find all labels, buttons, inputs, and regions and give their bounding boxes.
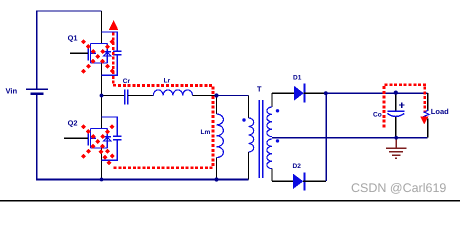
wire Vin bottom lead bbox=[36, 95, 38, 180]
transistor Q2 snubber capacitor branch bbox=[102, 117, 118, 160]
capacitor Co plus plate bbox=[388, 110, 405, 112]
wire secondary top lead bbox=[271, 93, 273, 107]
svg-text:Q1: Q1 bbox=[68, 33, 78, 42]
wire Lr to node bbox=[193, 95, 217, 97]
wire load top lead bbox=[427, 93, 429, 110]
Q2 X tail dots bbox=[98, 149, 103, 154]
wire node to transformer primary bbox=[217, 95, 249, 97]
svg-text:Co: Co bbox=[373, 111, 382, 118]
node Lm bottom junction dot bbox=[214, 177, 218, 181]
transformer secondary bottom polarity dot bbox=[276, 139, 279, 142]
capacitor Co top lead bbox=[395, 93, 397, 111]
capacitor Cr plates bbox=[124, 89, 126, 104]
wire Vin top lead bbox=[36, 10, 38, 88]
wire top rail Vin+ to Q1 drain bbox=[37, 10, 102, 12]
node Co ground junction dot bbox=[394, 136, 398, 140]
capacitor Co curved plate bbox=[387, 113, 404, 116]
svg-text:Lm: Lm bbox=[201, 129, 211, 136]
inductor Lm bbox=[217, 114, 224, 158]
svg-text:Lr: Lr bbox=[164, 78, 171, 85]
node Lm top junction dot bbox=[214, 93, 218, 97]
transformer T core bbox=[259, 100, 262, 178]
svg-text:D2: D2 bbox=[293, 163, 302, 170]
output current dotted path bbox=[384, 85, 426, 128]
wire secondary top to D1 bbox=[272, 92, 294, 94]
wire secondary bottom to D2 bbox=[272, 180, 293, 182]
resistor load zigzag bbox=[424, 110, 429, 118]
transistor Q1 gate lead bbox=[70, 52, 88, 54]
svg-text:T: T bbox=[257, 85, 262, 94]
wire load bottom lead bbox=[427, 118, 429, 137]
svg-text:D1: D1 bbox=[293, 75, 302, 82]
diode D1 bbox=[294, 86, 304, 101]
wire Cr to Lr bbox=[128, 95, 154, 97]
node D1 cathode junction dot bbox=[324, 91, 328, 95]
transformer T secondary bottom winding bbox=[267, 139, 272, 169]
wire Lm top stub bbox=[216, 96, 218, 115]
transistor Q1 snubber capacitor branch bbox=[102, 32, 118, 75]
transistor Q1 mosfet body bbox=[88, 44, 107, 64]
bottom border line bbox=[0, 200, 460, 202]
transistor Q2 body diode bbox=[106, 129, 108, 149]
wire D2 cathode riser bbox=[325, 93, 327, 181]
inductor Lr bbox=[153, 90, 192, 96]
svg-text:Cr: Cr bbox=[123, 78, 131, 85]
diode D2 bbox=[293, 174, 303, 190]
wire mid node to Cr bbox=[102, 95, 126, 97]
transformer T secondary top winding bbox=[267, 107, 272, 137]
wire transformer primary top lead bbox=[248, 96, 250, 119]
svg-text:Q2: Q2 bbox=[68, 118, 78, 127]
current path arrow up at Q1 bbox=[109, 20, 118, 30]
wire center tap return line bbox=[272, 137, 428, 139]
wire transformer primary bottom lead bbox=[248, 152, 250, 180]
wire half-bridge bus vertical bbox=[101, 11, 103, 180]
transistor Q2 mosfet body bbox=[88, 129, 107, 149]
wire bottom rail bbox=[36, 179, 249, 181]
ground symbol bbox=[395, 138, 397, 148]
node Co top junction dot bbox=[394, 91, 398, 95]
transformer secondary top polarity dot bbox=[276, 109, 279, 112]
svg-text:Load: Load bbox=[431, 107, 449, 116]
transformer T primary winding bbox=[249, 118, 254, 152]
node bus bottom junction dot bbox=[100, 178, 104, 182]
svg-text:CSDN @Carl619: CSDN @Carl619 bbox=[351, 181, 446, 195]
svg-text:Vin: Vin bbox=[6, 87, 18, 96]
capacitor Co plus sign bbox=[399, 102, 405, 108]
node mid bridge junction dot bbox=[100, 94, 104, 98]
Q1 off-cross dotted X bbox=[81, 39, 86, 44]
wire secondary bottom lead bbox=[271, 169, 273, 182]
Q2 off-cross dotted X bbox=[81, 124, 86, 129]
capacitor Co bottom lead bbox=[395, 117, 397, 138]
wire Lm bottom stub bbox=[216, 158, 218, 180]
transformer primary polarity dot bbox=[242, 118, 245, 121]
current path dotted loop bbox=[113, 33, 214, 168]
battery Vin short plate bbox=[31, 93, 44, 95]
load current arrow down bbox=[420, 116, 428, 124]
wire output top rail bbox=[326, 92, 428, 94]
battery Vin long plate bbox=[26, 88, 48, 90]
transistor Q1 body diode bbox=[106, 44, 108, 64]
transistor Q2 gate lead bbox=[64, 137, 88, 139]
